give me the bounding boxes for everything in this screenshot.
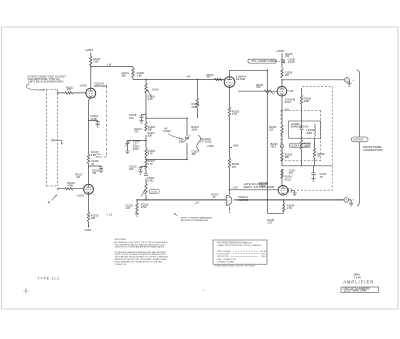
wire: C1037 drop: [313, 166, 315, 179]
svg-text:8: 8: [93, 194, 94, 196]
socket pin (to V1013B grid): [57, 188, 59, 190]
tube V1014B: [277, 86, 287, 96]
label R1013: [148, 94, 156, 101]
wire: network top rail: [146, 117, 187, 119]
capacitor C1020 (coupling): [144, 174, 148, 176]
label at partition end: [95, 154, 102, 158]
label + at jack J2: [352, 199, 354, 202]
svg-text:4-25: 4-25: [179, 141, 185, 144]
label TO GRID callout: [200, 138, 212, 144]
label V1024-A: [236, 74, 247, 81]
junction top rail: [145, 117, 188, 119]
note: interconnecting socket text: [28, 76, 67, 84]
label 4.7: [272, 94, 276, 96]
wire to -150V: [88, 222, 90, 228]
trimmer capacitor C1017 HF: [184, 135, 191, 143]
svg-text:.001: .001: [129, 116, 135, 120]
resistor R1026: [228, 158, 230, 168]
svg-text:NE-2: NE-2: [271, 146, 277, 149]
label R1030b: [304, 97, 312, 103]
label C1022/.047: [125, 203, 133, 210]
wire: grid line to V1024A: [133, 79, 224, 81]
svg-text:CONNECT TO AMP.: CONNECT TO AMP.: [217, 260, 235, 263]
capacitor C1037: [311, 173, 315, 175]
wire: R1023 to ground: [136, 212, 138, 213]
svg-text:470K: 470K: [133, 148, 139, 151]
resistor R1031: [264, 90, 272, 92]
note leader arrow: [26, 84, 45, 91]
label R1016 values: [148, 125, 156, 138]
wire: box inner rail: [282, 165, 332, 167]
tube V1013A pin numbers: [85, 90, 96, 100]
tube V1034B pin numbers: [278, 186, 287, 197]
svg-text:10K: 10K: [91, 216, 96, 220]
inductor L1032: [314, 124, 317, 137]
svg-text:33K: 33K: [148, 133, 153, 137]
svg-text:40M: 40M: [306, 131, 312, 135]
capacitor C1016: [99, 167, 103, 169]
svg-text:270K: 270K: [141, 205, 147, 209]
svg-text:9: 9: [277, 87, 278, 89]
resistor R1035: [281, 152, 283, 161]
tube V1024A pin numbers: [224, 78, 234, 90]
label C1021/180: [121, 71, 129, 78]
label R1025: [232, 109, 240, 116]
wire: V1014B grid: [238, 90, 277, 92]
junction: plate line node: [281, 79, 283, 81]
svg-text:1 W: 1 W: [107, 63, 112, 67]
+150V supply label: [276, 49, 285, 53]
resistor R1040: [283, 203, 285, 212]
label R1015b: [148, 149, 156, 156]
tube V1033 (half-envelope): [226, 195, 232, 205]
bracket (front panel group): [357, 70, 360, 206]
label R1015: [91, 150, 99, 157]
svg-text:± MEAS. FROM PRECEDING CONTROL: ± MEAS. FROM PRECEDING CONTROL READING: [217, 244, 262, 247]
interconnect symbol: [281, 59, 285, 63]
svg-text:100: 100: [285, 74, 290, 77]
svg-text:4.5-25: 4.5-25: [288, 61, 296, 64]
note text: [181, 216, 213, 222]
neon bulb B1033: [280, 145, 283, 148]
svg-text:+ 1.5: + 1.5: [106, 212, 112, 216]
svg-text:15K: 15K: [256, 86, 261, 89]
svg-text:47K: 47K: [67, 88, 72, 92]
svg-text:4.7K: 4.7K: [232, 112, 238, 116]
junction: V1034 grid node: [229, 189, 231, 191]
label bias +0.6V: [79, 84, 87, 88]
label V1033: [238, 195, 249, 202]
node A label: [48, 195, 57, 205]
label R1024 47: [206, 73, 214, 79]
junction bottom rail: [145, 159, 188, 161]
label R1040: [287, 204, 295, 211]
svg-text:15.8K: 15.8K: [91, 117, 98, 121]
title AMPLIFIER: [343, 280, 374, 285]
ground (C1018): [139, 121, 144, 124]
voltage readings chart: [213, 240, 267, 264]
svg-text:1010 THRU 1040: 1010 THRU 1040: [344, 289, 367, 293]
wire: feedback return: [267, 70, 283, 213]
wire: C1019 ground: [140, 169, 142, 172]
label L1032: [306, 128, 315, 135]
label R1011: [93, 57, 101, 64]
wire: V1013B cathode down: [88, 194, 90, 212]
note arrow: [174, 213, 178, 216]
wire: grid line to V1013A: [59, 92, 86, 94]
tube V1034B: [278, 186, 288, 196]
svg-text:(1.4K): (1.4K): [147, 179, 154, 182]
wire: trimmer to ground: [127, 144, 129, 151]
svg-text:UNITS (PLUG-IN SHOWN GRAY): UNITS (PLUG-IN SHOWN GRAY): [28, 81, 63, 84]
label +140V: [207, 145, 214, 148]
label C1016: [91, 159, 99, 166]
label V1014-B: [285, 97, 296, 104]
svg-text:220K: 220K: [191, 105, 197, 109]
trimmer capacitor C1013: [125, 140, 131, 147]
svg-text:1M: 1M: [76, 175, 80, 179]
svg-text:470: 470: [289, 172, 294, 175]
ground (jack J2): [349, 203, 354, 206]
wire: x314 chain: [314, 138, 316, 166]
wire: stub to C1016: [89, 166, 102, 167]
ground (C1037): [311, 179, 316, 182]
resistor R1019: [196, 98, 198, 108]
svg-text:AROUND V1033 ARE NOM.: AROUND V1033 ARE NOM.: [181, 219, 209, 222]
label R1019b: [191, 125, 199, 132]
wire: V1024A plate up: [229, 70, 231, 76]
label C1037: [319, 173, 327, 179]
output jack J2 (lower): [344, 198, 351, 204]
title box: [341, 286, 379, 292]
label C1017: [179, 138, 187, 143]
resistor R1020: [132, 68, 134, 78]
svg-text:100K: 100K: [304, 145, 310, 148]
svg-text:27K: 27K: [134, 129, 139, 133]
ground (C1019): [138, 172, 143, 175]
wire: dashed to box edge: [297, 189, 332, 191]
label R1020: [137, 71, 145, 78]
resistor R1036: [313, 148, 315, 157]
tube V1013A: [86, 88, 96, 98]
label R1022: [67, 181, 75, 187]
big S-curve callout: [197, 135, 201, 151]
svg-text:+0.6V: +0.6V: [76, 194, 84, 198]
dashed link from box: [276, 60, 281, 62]
wire: V1014B cathode down: [281, 96, 283, 125]
ground (output cap): [292, 193, 297, 196]
resistor R1012 (grid): [65, 92, 73, 94]
label R1023: [141, 202, 149, 209]
svg-text:180: 180: [121, 74, 126, 78]
chart footnote: [214, 265, 255, 268]
IMPORTANT note block: [115, 238, 169, 266]
callout curve to trimmer: [168, 134, 182, 139]
label LATE SN: [244, 182, 275, 189]
wire: main output line: [137, 199, 344, 201]
svg-text:4: 4: [278, 186, 279, 188]
resistor R1037: [281, 169, 283, 178]
svg-text:C1034 A,B: C1034 A,B: [290, 145, 301, 148]
label C1018: [129, 113, 137, 120]
wire: +225V feed: [90, 52, 92, 88]
svg-text:6: 6: [286, 196, 287, 198]
label C1013 block: [133, 140, 141, 151]
label grid bias: [259, 181, 268, 188]
label HF COMP: [163, 128, 171, 134]
svg-text:6CL6: 6CL6: [285, 100, 292, 104]
svg-text:1.8K: 1.8K: [93, 59, 99, 63]
tube V1024A: [224, 77, 235, 88]
svg-text:-L1010: -L1010: [150, 192, 158, 194]
junction: plate node: [90, 66, 92, 68]
ground (jack J1): [347, 84, 352, 87]
wire: tap down: [283, 200, 285, 203]
label +12V: [232, 188, 238, 190]
svg-text:CONNECTOR.: CONNECTOR.: [115, 264, 127, 266]
resistor R1016a: [145, 122, 147, 131]
svg-text:CONNECTORS: CONNECTORS: [363, 148, 383, 152]
resistor R1034: [300, 140, 302, 149]
svg-text:10K: 10K: [148, 127, 153, 131]
label C1019: [129, 164, 137, 171]
socket pin (to V1013A grid): [57, 92, 59, 94]
svg-text:68K: 68K: [285, 156, 290, 159]
label R1016c chain: [92, 171, 99, 175]
wire: V1024A cathode chain: [229, 87, 231, 190]
label GAIN: [152, 88, 158, 92]
dashed inner box: [281, 110, 321, 161]
wire: plate line to output jack: [282, 79, 345, 81]
junction: feedback/plate node: [267, 70, 269, 72]
wire: coupling chain: [132, 67, 134, 80]
tube V1013B: [84, 184, 94, 194]
label L10 on branch: [107, 63, 112, 67]
wire: x187 branch: [186, 118, 188, 159]
label V1034: [284, 174, 292, 181]
title date: [353, 277, 361, 280]
wire: cap to ground stub: [288, 190, 295, 193]
label B1033: [271, 143, 279, 149]
svg-text:2: 2: [83, 186, 84, 188]
coupling capacitor C1040: [289, 188, 292, 193]
wire: C1016 to ground: [100, 169, 102, 170]
wire: divider lower: [145, 159, 147, 200]
svg-text:.047: .047: [125, 206, 131, 210]
capacitor C1019: [139, 167, 143, 169]
wire: x301 chain: [301, 88, 303, 166]
label C1017b: [191, 150, 199, 157]
label R1013 left: [134, 127, 142, 134]
svg-text:6CL6: 6CL6: [285, 177, 292, 181]
svg-text:AMPLIFIER: AMPLIFIER: [343, 280, 374, 285]
svg-text:OHMS PER VOLT METER AND ARE AP: OHMS PER VOLT METER AND ARE APPROXIMATE …: [115, 246, 166, 249]
dashed box right edge: [331, 87, 333, 191]
label +150 small: [284, 109, 290, 111]
resistor R1015 (cathode): [87, 154, 89, 164]
wire: grid line to V1034B: [230, 189, 279, 191]
resistor R1022 (grid): [65, 188, 73, 190]
resistor R1024 (grid stopper): [215, 78, 222, 80]
svg-text:AMPLIFIER: AMPLIFIER: [94, 85, 107, 88]
shield partition (dashed): [97, 86, 107, 158]
junction: x197 top: [197, 79, 199, 81]
svg-text:IMPORTANT:: IMPORTANT:: [115, 238, 127, 241]
wire: V1013A cathode chain: [89, 98, 90, 184]
wire: grid line to V1013B: [59, 188, 84, 190]
junction: main line left: [136, 199, 147, 201]
svg-text:-150 V: -150 V: [261, 256, 267, 258]
boxed label DC ADJ: [149, 190, 159, 194]
svg-text:4.7K: 4.7K: [148, 151, 154, 155]
svg-text:117 AC: 117 AC: [260, 250, 267, 253]
capacitor C1014 (cathode bypass): [96, 121, 100, 123]
tube V1014B pin numbers: [277, 87, 286, 99]
label V1013-A: [94, 82, 107, 89]
label -150V: [84, 228, 91, 232]
label R1014: [91, 114, 99, 121]
wire: plate branch to coupling network: [91, 66, 133, 68]
label C1020: [147, 177, 155, 183]
label L1037: [289, 170, 296, 176]
svg-text:100K: 100K: [304, 100, 310, 103]
resistor R1015b: [145, 149, 147, 158]
svg-text:2.5K: 2.5K: [148, 97, 154, 101]
label R1019: [191, 102, 199, 109]
wire: stub to C1019: [141, 166, 147, 169]
svg-text:LINE VOLTAGE: LINE VOLTAGE: [217, 250, 231, 253]
svg-text:47K: 47K: [232, 165, 237, 169]
label V1013-B bias: [76, 194, 84, 198]
register mark left: [23, 288, 29, 294]
wire: C1018 to ground: [141, 118, 143, 121]
svg-text:180: 180: [191, 152, 196, 156]
junction: trimmer tap: [145, 140, 147, 142]
svg-text:1.5K: 1.5K: [287, 206, 293, 210]
svg-text:+225V: +225V: [85, 48, 94, 52]
test point mark: [194, 202, 198, 205]
label +88 tick: [287, 90, 294, 93]
svg-text:2.2K: 2.2K: [267, 222, 272, 224]
label R1033: [269, 126, 277, 132]
boxed label TO GRID: [248, 59, 276, 63]
label in inner box: [291, 122, 308, 129]
label R1031: [256, 84, 264, 89]
wire: trimmer branch: [128, 141, 147, 143]
label R1016c: [148, 159, 156, 166]
boxed label C1034: [289, 143, 310, 147]
title initials: [354, 273, 360, 276]
label R1017: [75, 172, 83, 179]
resistor R1023: [136, 203, 138, 212]
label +8V: [186, 77, 191, 79]
label R1035: [285, 154, 293, 160]
resistor R1016c: [145, 160, 147, 169]
wire: x197 branch: [196, 80, 198, 119]
svg-text:+150V: +150V: [276, 49, 285, 53]
label R1018: [91, 214, 99, 221]
wire: +150V feed: [281, 53, 283, 86]
svg-text:COMP: COMP: [163, 130, 171, 133]
wire: stub to C1014 bypass: [89, 120, 98, 123]
resistor R1030 (plate): [281, 69, 283, 78]
svg-text:15K: 15K: [269, 129, 274, 132]
junction: output tap: [283, 199, 285, 201]
svg-text:7: 7: [233, 88, 234, 90]
ground (trimmer): [125, 151, 130, 154]
svg-text:+0.6V: +0.6V: [79, 84, 87, 88]
dashed box (late SN mod) top: [302, 86, 332, 88]
resistor R1030b: [300, 95, 302, 105]
svg-text:+38V: +38V: [259, 184, 266, 188]
label C1028: [285, 71, 293, 76]
svg-text:OF V1033: OF V1033: [200, 140, 212, 143]
label R1029 group: [285, 53, 295, 64]
label + at jack J1: [352, 79, 354, 82]
svg-text:7: 7: [85, 90, 86, 92]
label R1036: [317, 153, 325, 159]
TYPE 1L2 label: [38, 277, 60, 281]
resistor R1018: [87, 212, 89, 222]
capacitor in box: [300, 128, 304, 130]
svg-text:±27 (WITH ADDITIONAL CONTROL: ±27 (WITH ADDITIONAL CONTROL SETTINGS): [214, 265, 255, 268]
label R1039: [267, 220, 274, 225]
interconnecting socket J1 (dashed outline): [47, 90, 58, 187]
wire: drop to R1023: [136, 200, 138, 203]
resistor R1025: [228, 107, 230, 117]
svg-text:1.8K: 1.8K: [137, 74, 143, 78]
svg-text:TYPE 1L2: TYPE 1L2: [38, 277, 60, 281]
label R1034: [304, 142, 312, 148]
svg-text:-150V: -150V: [84, 228, 91, 232]
svg-text:200: 200: [129, 167, 134, 171]
svg-text:1K: 1K: [212, 195, 215, 199]
svg-text:1/2 6U8: 1/2 6U8: [236, 77, 246, 81]
svg-text:4.7K: 4.7K: [148, 162, 154, 166]
capacitor C1018: [140, 116, 144, 118]
wire: divider upper: [145, 80, 147, 84]
wire: plate line to feedback node: [230, 69, 268, 71]
output jack J1 (upper): [345, 78, 350, 84]
junction: grid line / divider: [145, 79, 147, 81]
wire: x146 through net: [145, 118, 147, 159]
wire: plate into V1033: [229, 190, 231, 195]
register mark right: [203, 289, 205, 292]
svg-text:TO + GRID V1033: TO + GRID V1033: [252, 59, 276, 63]
resistor R1033: [281, 125, 283, 134]
svg-text:+8V: +8V: [186, 77, 191, 79]
svg-text:NOTE: VOLTAGES MEASURED: NOTE: VOLTAGES MEASURED: [181, 216, 213, 219]
svg-text:+69V: +69V: [233, 144, 239, 147]
ground (C1014): [95, 125, 100, 128]
tube V1013B pin numbers: [83, 186, 93, 196]
potentiometer R1013 GAIN: [145, 83, 152, 97]
label +69V with arrow: [230, 144, 239, 148]
resistor R1011 (plate load): [90, 56, 92, 66]
potentiometer (output adj): [141, 184, 147, 197]
svg-text:V1034-B: V1034-B: [238, 198, 249, 202]
wire: C1014 to ground: [97, 123, 99, 125]
svg-text:TEST SCOPE: TEST SCOPE: [217, 256, 230, 258]
wire: network bottom rail: [146, 158, 187, 160]
ground (R1023): [135, 214, 140, 217]
svg-text:470K: 470K: [67, 183, 73, 187]
svg-text:2: 2: [224, 78, 225, 80]
wire: stub to C1018: [142, 115, 147, 116]
label R1012: [66, 85, 74, 91]
label FRONT PANEL: [363, 145, 383, 152]
ground (C1016): [99, 170, 104, 173]
